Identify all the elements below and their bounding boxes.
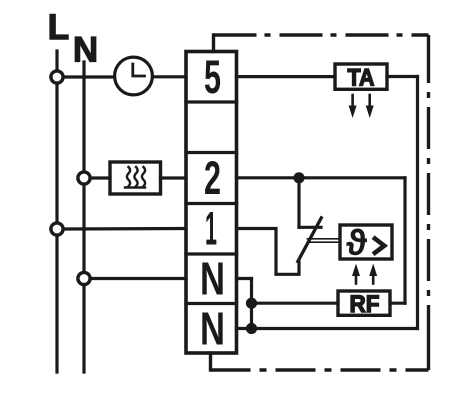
wire terminal 5 to TA [237,75,336,78]
dashed enclosure border: left-top stub [212,35,215,52]
terminal circle on N at wire to heater [78,172,90,184]
wire from N terminal to heater [92,176,110,179]
junction dot on terminal 2 wire [293,172,304,183]
wire right rail down to N wire [416,77,419,329]
dashed enclosure border: right [427,35,430,370]
switch blade [298,218,322,262]
svg-text:RF: RF [350,291,380,318]
terminal block outline [186,52,237,354]
svg-text:1: 1 [205,202,217,255]
wire from heater to terminal 2 [161,176,187,179]
wire N line middle [82,186,85,271]
wire right branch down to RF [403,178,406,303]
wire TA to right rail [387,75,418,78]
svg-text:ϑ: ϑ [346,222,367,263]
RF box [338,291,390,315]
svg-text:TA: TA [348,65,375,92]
svg-text:2: 2 [204,151,221,204]
heater element (thermal load) [110,162,161,194]
wire terminal 2 to right [237,176,406,179]
wire L line upper stub [55,51,58,69]
dashed enclosure border: left-bottom stub [209,353,212,370]
switch contact tick [299,226,321,229]
switch fixed contact drop [297,178,300,228]
terminal separators [186,100,237,103]
wire N row to right rail [237,327,418,330]
svg-text:L: L [48,8,69,47]
svg-text:N: N [200,303,225,355]
dashed enclosure border: top [214,33,429,36]
TA down arrow 1 [351,95,354,107]
wire N line lower [82,286,85,372]
wire L line lower [55,237,58,372]
wire N branch vertical [250,279,253,329]
wire terminal N to branch [237,277,252,280]
TA down arrow 2 [368,95,371,107]
wire terminal 1 to switch [237,229,300,275]
TA box [335,64,387,89]
wire from L terminal to clock [65,75,115,78]
junction dot N branch / N row [246,323,257,334]
wire from L terminal to terminal 1 [65,227,186,231]
wire from clock to terminal 5 [153,75,187,78]
terminal circle on N at wire to terminal N [78,272,90,284]
wire L line middle [55,85,58,221]
wire from N terminal to terminal N [92,277,186,280]
thermostat box [340,225,392,259]
dashed enclosure border: bottom [211,368,429,371]
mechanical link double line [308,238,341,240]
clock symbol (time switch) [115,57,153,95]
svg-text:N: N [200,253,225,305]
wire N line upper [82,62,85,170]
junction dot N branch / RF [246,298,257,309]
wire RF left to N branch [252,302,339,305]
wire RF right to branch [390,302,405,305]
RF up arrow 2 [372,272,375,284]
svg-text:5: 5 [204,50,221,103]
terminal circle on L at wire to terminal 1 [51,223,63,235]
RF up arrow 1 [355,272,358,284]
terminal circle on L at wire to clock [51,71,63,83]
